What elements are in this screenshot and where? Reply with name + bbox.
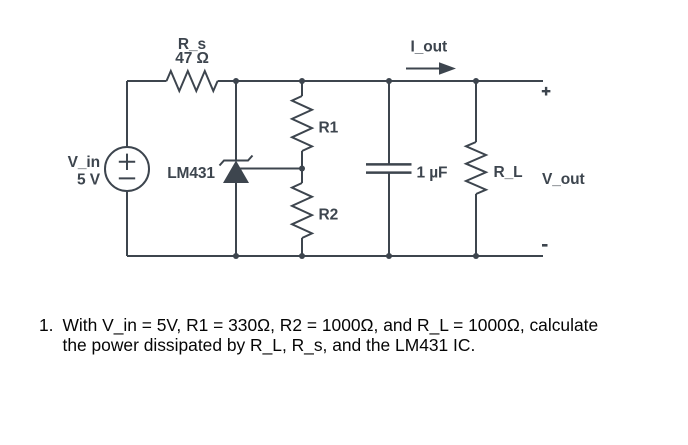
resistor R1 (292, 96, 312, 151)
svg-text:R_L: R_L (494, 164, 523, 181)
LM431 cathode bar (220, 156, 253, 166)
question number 1. (39, 317, 54, 334)
voltage source V_in (105, 147, 149, 191)
junction node bottom R_L (473, 253, 479, 259)
wire LM431 reference to divider (240, 168, 302, 170)
wire bottom rail (127, 255, 543, 257)
junction node bottom R2 (299, 253, 305, 259)
wire capacitor column (388, 81, 390, 256)
svg-text:V_out: V_out (542, 171, 585, 188)
junction node divider tap (299, 166, 305, 172)
svg-text:V_in: V_in (68, 154, 100, 171)
minus mark inside source (119, 177, 135, 179)
wire top rail (127, 80, 543, 82)
svg-text:47 Ω: 47 Ω (175, 50, 209, 67)
svg-text:R2: R2 (319, 207, 339, 224)
junction node bottom capacitor (386, 253, 392, 259)
wire R1 R2 column (301, 81, 303, 256)
svg-text:LM431: LM431 (167, 165, 215, 182)
LM431 anode triangle (223, 161, 249, 184)
plus mark inside source (119, 154, 135, 170)
svg-text:I_out: I_out (411, 39, 448, 56)
question text line 2 (63, 337, 476, 354)
I_out arrowhead (439, 62, 456, 74)
junction node top LM431 (233, 78, 239, 84)
I_out arrow shaft (406, 68, 441, 70)
resistor R_L (466, 142, 486, 194)
svg-text:R1: R1 (319, 120, 339, 137)
resistor R_s (167, 71, 218, 91)
wire left column (V_in branch) (126, 81, 128, 256)
question text line 1 (63, 317, 599, 334)
svg-text:5 V: 5 V (77, 172, 101, 189)
junction node bottom LM431 (233, 253, 239, 259)
capacitor C1 plates (366, 164, 412, 172)
junction node top R_L (473, 78, 479, 84)
wire R_L column (475, 81, 477, 256)
minus terminal output (542, 244, 548, 247)
wire LM431 cathode column (235, 81, 237, 256)
resistor R2 (292, 183, 312, 238)
junction node top R1 (299, 78, 305, 84)
svg-text:1 µF: 1 µF (417, 164, 448, 181)
plus terminal output (542, 87, 551, 96)
junction node top capacitor (386, 78, 392, 84)
